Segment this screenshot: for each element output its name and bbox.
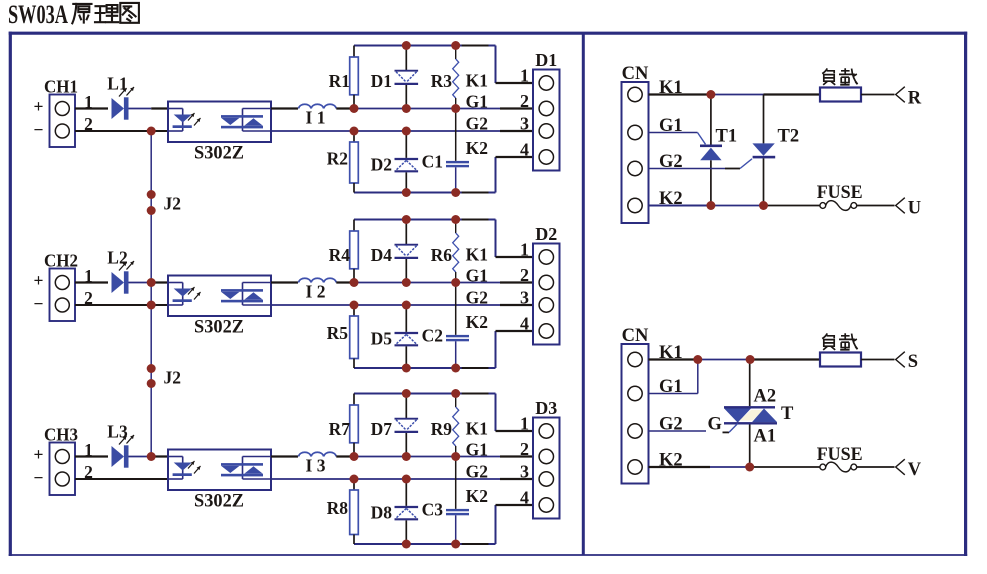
svg-text:R9: R9	[431, 419, 453, 439]
svg-text:D1: D1	[535, 50, 557, 70]
svg-text:G: G	[708, 415, 722, 435]
svg-text:R4: R4	[329, 245, 351, 265]
svg-text:2: 2	[520, 265, 529, 285]
svg-text:V: V	[908, 460, 922, 480]
svg-text:S302Z: S302Z	[194, 318, 244, 338]
svg-text:C1: C1	[422, 152, 443, 172]
svg-text:+: +	[34, 97, 44, 117]
svg-text:R5: R5	[327, 323, 349, 343]
svg-text:D2: D2	[371, 155, 392, 175]
svg-text:T2: T2	[778, 127, 800, 147]
svg-text:K2: K2	[466, 486, 488, 506]
svg-text:G1: G1	[466, 266, 488, 286]
svg-text:G1: G1	[466, 440, 488, 460]
svg-text:−: −	[34, 120, 44, 140]
svg-text:G2: G2	[466, 462, 488, 482]
svg-text:2: 2	[520, 91, 529, 111]
svg-text:A1: A1	[754, 427, 777, 447]
svg-text:3: 3	[520, 114, 529, 134]
svg-text:J2: J2	[164, 368, 182, 388]
svg-text:1: 1	[520, 240, 529, 260]
svg-text:G2: G2	[466, 288, 488, 308]
svg-text:L1: L1	[107, 74, 127, 94]
svg-text:−: −	[34, 468, 44, 488]
svg-text:S302Z: S302Z	[194, 492, 244, 512]
svg-text:CH1: CH1	[44, 77, 78, 97]
svg-text:FUSE: FUSE	[817, 183, 863, 203]
svg-text:R: R	[908, 89, 922, 109]
svg-text:R1: R1	[329, 71, 350, 91]
svg-text:R6: R6	[431, 245, 453, 265]
svg-text:D1: D1	[371, 71, 392, 91]
svg-text:2: 2	[520, 439, 529, 459]
svg-text:+: +	[34, 271, 44, 291]
svg-text:G2: G2	[466, 114, 488, 134]
svg-text:R3: R3	[431, 71, 453, 91]
svg-text:D8: D8	[371, 503, 393, 523]
svg-text:CN: CN	[622, 64, 649, 84]
svg-text:K1: K1	[466, 245, 488, 265]
svg-text:4: 4	[520, 140, 529, 160]
svg-text:K1: K1	[466, 419, 488, 439]
svg-text:CH3: CH3	[44, 425, 78, 445]
svg-text:K1: K1	[466, 71, 488, 91]
svg-text:K2: K2	[466, 138, 488, 158]
svg-text:C3: C3	[422, 500, 444, 520]
svg-text:I 2: I 2	[306, 282, 326, 302]
svg-text:D7: D7	[371, 419, 393, 439]
svg-text:R2: R2	[327, 148, 348, 168]
svg-text:3: 3	[520, 288, 529, 308]
svg-text:U: U	[908, 199, 921, 219]
svg-text:D3: D3	[535, 398, 557, 418]
svg-text:4: 4	[520, 314, 529, 334]
svg-text:S302Z: S302Z	[194, 144, 244, 164]
svg-text:G1: G1	[466, 92, 488, 112]
svg-text:T1: T1	[716, 127, 738, 147]
svg-text:−: −	[34, 294, 44, 314]
svg-text:L2: L2	[107, 248, 127, 268]
svg-text:1: 1	[520, 414, 529, 434]
svg-text:L3: L3	[107, 422, 128, 442]
svg-text:I 3: I 3	[306, 456, 326, 476]
svg-text:T: T	[781, 404, 794, 424]
svg-text:C2: C2	[422, 326, 443, 346]
svg-text:1: 1	[520, 66, 529, 86]
svg-text:S: S	[908, 352, 918, 372]
svg-text:3: 3	[520, 462, 529, 482]
svg-text:CN: CN	[622, 326, 649, 346]
svg-text:D5: D5	[371, 329, 393, 349]
svg-text:FUSE: FUSE	[817, 445, 863, 465]
svg-text:A2: A2	[754, 387, 777, 407]
svg-text:J2: J2	[164, 194, 182, 214]
svg-text:SW03A: SW03A	[8, 0, 68, 29]
svg-text:K2: K2	[466, 312, 488, 332]
svg-text:R8: R8	[327, 498, 349, 518]
svg-text:D2: D2	[535, 224, 557, 244]
svg-text:+: +	[34, 445, 44, 465]
svg-text:CH2: CH2	[44, 251, 78, 271]
svg-text:I 1: I 1	[306, 108, 326, 128]
svg-text:D4: D4	[371, 245, 393, 265]
svg-text:4: 4	[520, 488, 529, 508]
svg-text:R7: R7	[329, 419, 351, 439]
